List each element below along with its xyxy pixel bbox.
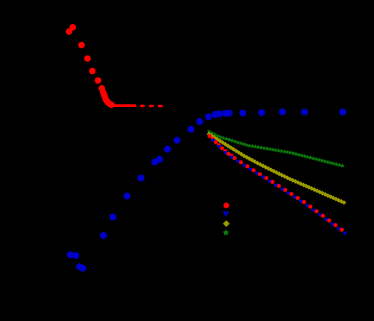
red circle decaying series <box>208 134 344 232</box>
blue triangle decaying series <box>210 139 347 236</box>
legend markers <box>223 203 230 236</box>
red training-loss series (large circles, descending then flat) <box>66 24 163 108</box>
blue test-accuracy series (large circles, rising then flat) <box>67 108 347 271</box>
green star decaying series <box>207 129 345 168</box>
olive diamond decaying series <box>207 132 347 205</box>
